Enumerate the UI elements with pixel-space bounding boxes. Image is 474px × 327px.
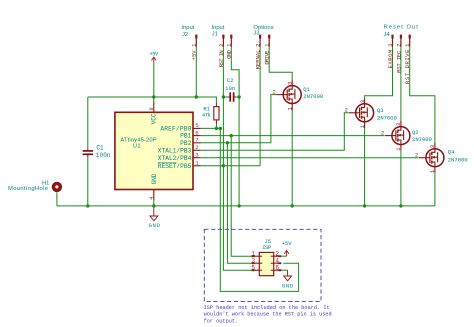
pin 2 XTAL1/PB3 of U1 [193,144,201,151]
svg-text:PB1: PB1 [180,133,191,140]
svg-text:3: 3 [395,123,402,126]
wire Q4 source to GND rail end [434,173,436,206]
svg-text:3: 3 [359,100,366,103]
svg-text:C2: C2 [227,77,234,84]
connector J5 ISP header [259,238,273,276]
svg-text:3: 3 [251,257,255,264]
svg-text:ISP header not included on the: ISP header not included on the board. It [204,305,330,311]
capacitor C1 [83,97,111,206]
svg-text:2N7000: 2N7000 [412,136,432,143]
connector J2 [181,25,197,61]
resistor R1 [202,103,219,125]
svg-text:2: 2 [415,152,418,159]
svg-text:6: 6 [195,129,199,136]
svg-text:ISP: ISP [262,244,271,251]
junction RST_IN RESET row [222,164,225,167]
pin 6 PB1 of U1 [193,129,201,136]
junction Q3 source rail [363,204,366,207]
svg-text:4: 4 [275,257,279,264]
wire Q2 source to GND rail [400,151,402,206]
junction Q2 source rail [399,204,402,207]
svg-text:J1: J1 [212,32,218,38]
wire PB0 row [201,127,221,129]
svg-text:Q2: Q2 [412,129,419,136]
svg-text:2: 2 [395,44,402,47]
svg-text:1: 1 [251,250,255,257]
svg-text:2: 2 [381,129,384,136]
pin 1 of J5 [251,250,262,257]
ground symbol at ISP [282,270,294,289]
power +5V symbol at ISP [282,240,293,256]
svg-text:MountingHole: MountingHole [8,186,48,192]
wire H1 to GND rail [56,192,58,206]
svg-text:GND: GND [148,222,160,229]
wire +5V symbol to rail [153,62,155,97]
pin 2 RST_IEC of J4 [400,35,402,39]
wire +5V rail [88,97,217,103]
svg-text:8: 8 [148,107,155,110]
wire PB1 row to Q2 gate [201,135,385,137]
svg-text:2N7000: 2N7000 [303,93,323,100]
pin 6 of J5 [271,264,282,271]
svg-text:wouldn't work because the RST: wouldn't work because the RST pin is use… [204,312,332,318]
pin 4 of J5 [271,257,282,264]
svg-text:2: 2 [218,44,225,47]
transistor Q3 [345,98,397,128]
pin 5 AREF/PB0 of U1 [193,122,201,129]
note text [204,305,332,325]
wire PB3 row to Q3 gate [201,113,349,151]
svg-text:Input: Input [181,25,194,31]
svg-text:2N7000: 2N7000 [448,157,468,164]
ground symbol under U1 [148,206,160,229]
svg-text:GND: GND [282,283,294,290]
svg-text:6: 6 [275,264,279,271]
svg-text:2: 2 [275,250,279,257]
svg-text:3: 3 [286,82,293,85]
mounting hole H1 [8,180,62,192]
pin 2 KERNAL of J3 [259,35,261,39]
pin 2 RST_IN of J1 [222,35,224,39]
junction PB0/ISP MOSI [219,127,222,130]
wire Q3 source to GND rail [364,128,366,206]
wire RST_IEC to Q2 drain [400,47,402,121]
svg-text:GND: GND [151,173,158,184]
svg-text:U1: U1 [133,143,141,149]
wire J1 GND to C2 and rail [231,47,239,206]
pin 2 of J5 [271,250,282,257]
svg-text:+5V: +5V [282,240,293,247]
note dashed box [204,229,321,301]
wire KERNAL to RESET row [259,47,261,166]
svg-text:Q1: Q1 [303,86,310,93]
connector J1 [212,25,233,67]
connector J4 [384,24,419,84]
svg-text:Input: Input [212,25,225,31]
svg-text:Q4: Q4 [448,148,455,155]
wire J5 pin2 to +5V [281,255,287,257]
wire ISP MISO to PB1 [231,136,252,257]
wire DRIVE to Q1 drain [269,47,292,80]
transistor Q1 [273,80,324,111]
svg-text:J2: J2 [182,32,188,38]
svg-text:2: 2 [255,44,262,47]
svg-text:3: 3 [195,152,199,159]
svg-text:47k: 47k [202,112,212,119]
wire GND rail [57,205,435,207]
capacitor C2 [223,77,239,102]
pin 3 XTAL2/PB4 of U1 [193,152,201,159]
svg-text:3: 3 [387,44,394,47]
wire PB2 row to Q1 gate [201,95,277,143]
svg-text:10n: 10n [225,85,235,92]
wire PB4 row to Q4 gate [201,157,419,159]
wire RST_DRIVE to Q4 drain [410,47,435,143]
pin 8 VCC of U1 [148,97,155,112]
wire J5 pin6 to GND [281,269,288,271]
pin 1 RST_DRIVE of J4 [409,35,411,39]
svg-text:5: 5 [251,264,255,271]
connector J3 [253,25,273,69]
wire ISP MOSI to PB0 [220,128,298,291]
svg-text:J3: J3 [253,31,259,37]
svg-text:2: 2 [195,144,199,151]
svg-text:5: 5 [195,122,199,129]
junction U1 GND rail [152,204,155,207]
svg-text:Q3: Q3 [377,107,384,114]
pin 5 of J5 [251,264,262,271]
svg-text:VCC: VCC [150,113,157,124]
junction R1/PB0 [215,127,218,130]
wire RST_IN net [223,47,252,271]
svg-text:ATtiny45-20P: ATtiny45-20P [120,137,156,143]
svg-text:2: 2 [345,107,348,114]
svg-text:1: 1 [195,160,199,167]
svg-text:3: 3 [429,145,436,148]
svg-text:Reset Out: Reset Out [384,24,419,30]
svg-text:XTAL1/PB3: XTAL1/PB3 [158,147,192,154]
svg-text:7: 7 [195,137,199,144]
wire RESET row [201,165,261,167]
junction Q1 source rail [291,204,294,207]
svg-text:for output.: for output. [204,318,239,324]
pin 1 GND of J1 [230,35,232,39]
junction PB2 row ISP [226,141,229,144]
svg-text:RESET/PB5: RESET/PB5 [158,163,192,170]
pin 3 EXROM of J4 [391,35,393,39]
transistor Q4 [415,143,468,173]
svg-text:2: 2 [273,88,276,95]
pin 3 of J5 [251,257,262,264]
junction VCC rail [152,95,155,98]
wire Q1 source to GND rail [291,110,293,206]
pin 1 RESET/PB5 of U1 [193,160,201,167]
pin 4 GND of U1 [148,190,155,206]
pin 1 +5V of J2 [195,35,197,39]
svg-text:C1: C1 [96,144,104,151]
wire EXROM to Q3 drain [365,47,393,99]
transistor Q2 [381,121,432,151]
junction PB1 row ISP [230,134,233,137]
wire J2 +5V to rail [195,47,197,98]
pin 7 PB2 of U1 [193,137,201,144]
wire ISP SCK to PB2 [227,143,252,263]
svg-text:2N7000: 2N7000 [377,114,397,121]
wire R1 to PB0 row [215,124,217,128]
svg-text:XTAL2/PB4: XTAL2/PB4 [158,155,192,162]
svg-text:100n: 100n [96,152,111,159]
pin 1 DRIVE of J3 [268,35,270,39]
junction J1 GND rail [237,204,240,207]
svg-text:J4: J4 [384,32,391,38]
junction J2 rail [195,95,198,98]
svg-text:PB2: PB2 [180,140,191,147]
power +5V symbol [150,51,159,62]
junction C2 left / RST_IN [222,95,225,98]
junction C2 right / GND [237,95,240,98]
junction C1 rail [86,204,89,207]
op-amp U1 microcontroller ATtiny45-20P [115,112,193,189]
svg-text:AREF/PB0: AREF/PB0 [160,126,191,133]
